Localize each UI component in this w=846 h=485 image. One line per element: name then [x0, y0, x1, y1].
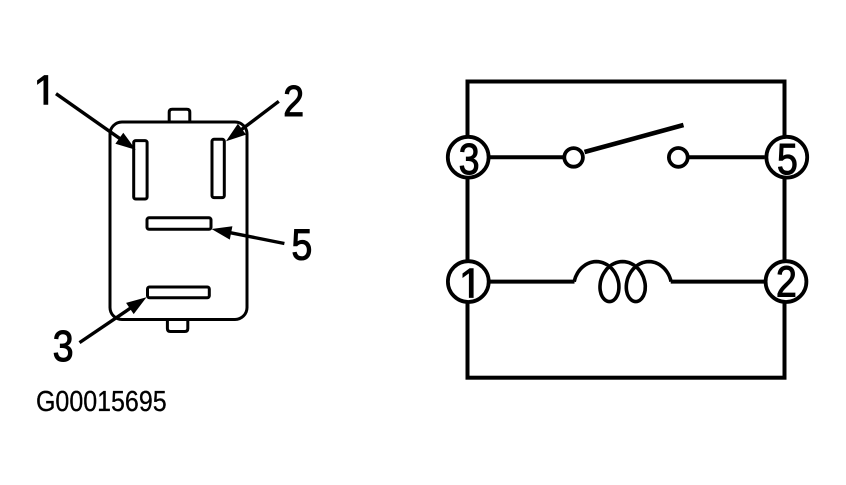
- svg-text:2: 2: [283, 76, 304, 126]
- svg-text:2: 2: [776, 257, 797, 307]
- svg-text:G00015695: G00015695: [36, 384, 167, 417]
- svg-text:3: 3: [53, 321, 74, 371]
- svg-text:5: 5: [291, 220, 312, 270]
- svg-text:3: 3: [459, 134, 480, 184]
- svg-text:5: 5: [777, 134, 798, 184]
